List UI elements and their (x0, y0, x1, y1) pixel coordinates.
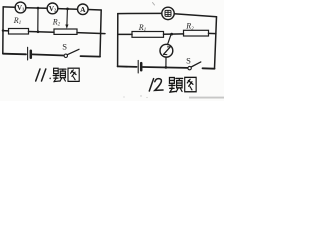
caption 题 (right) (169, 78, 183, 93)
svg-text:S: S (186, 56, 191, 66)
battery cell (28, 47, 31, 60)
wire top-left to bell (118, 12, 162, 14)
wire R1 to R2 (164, 33, 184, 35)
scan smear bottom right (189, 97, 224, 99)
wire A to top-right corner (88, 9, 101, 12)
wire vertical from top node to middle node (37, 8, 39, 32)
faint specks under caption 12 (140, 95, 141, 96)
wire bottom-left to battery (3, 53, 26, 56)
wire V2 to A (58, 8, 78, 11)
node middle-left junction (2, 29, 5, 32)
bell M (162, 7, 174, 19)
node on bottom wire (165, 66, 168, 69)
caption 题 (left) (53, 68, 66, 82)
wire tap down to meter (168, 35, 172, 45)
battery cell (138, 60, 141, 73)
wire switch to bottom-right corner (203, 67, 215, 69)
switch S (186, 56, 201, 70)
svg-text:A: A (80, 5, 86, 14)
voltmeter V1 (15, 2, 26, 13)
caption 11 (36, 69, 46, 81)
wire battery to switch (143, 66, 188, 69)
wire middle-left stub (118, 33, 132, 35)
svg-text:R1: R1 (138, 23, 146, 33)
caption dot (49, 78, 51, 80)
wire battery to switch (32, 54, 64, 55)
wire bottom-left to battery (118, 65, 137, 68)
wire bell to top-right corner (174, 14, 216, 17)
wire middle-left stub (3, 30, 9, 32)
svg-text:S: S (62, 42, 67, 52)
scan speck near top (153, 3, 155, 6)
wire right edge (215, 17, 217, 69)
svg-text:R2: R2 (185, 22, 194, 32)
wire V1 to V2 (26, 7, 47, 10)
voltmeter V2 (47, 3, 58, 14)
wire switch to bottom-right corner (81, 55, 101, 58)
caption 图 (left) (68, 68, 79, 81)
caption 12 (149, 79, 163, 91)
switch S (62, 42, 79, 58)
node top junction feeding rheostat wiper (66, 8, 69, 11)
wire R2 to right edge with overhang (77, 33, 105, 34)
wire right edge (100, 10, 101, 57)
meter (galvanometer) (160, 44, 173, 57)
wire R1 to R2 (29, 31, 55, 34)
node between R1 and R2 (37, 30, 40, 33)
wire left edge (2, 7, 4, 54)
svg-text:V2: V2 (49, 5, 56, 13)
wire top: corner to V1 (3, 6, 15, 8)
svg-text:R2: R2 (52, 17, 61, 27)
wire left edge (117, 14, 119, 67)
wire meter to bottom wire (165, 57, 167, 67)
svg-text:V1: V1 (17, 4, 24, 12)
resistor R2 (184, 22, 209, 36)
caption 图 (right) (185, 77, 196, 91)
node top junction above R1-R2 (37, 7, 40, 10)
resistor R1 (132, 23, 164, 37)
resistor R1 (9, 16, 29, 34)
node meter tap (170, 33, 173, 36)
svg-text:R1: R1 (13, 16, 21, 26)
wire R2 to right edge (209, 32, 216, 34)
ammeter A (78, 4, 89, 15)
rheostat R2 (52, 10, 77, 35)
